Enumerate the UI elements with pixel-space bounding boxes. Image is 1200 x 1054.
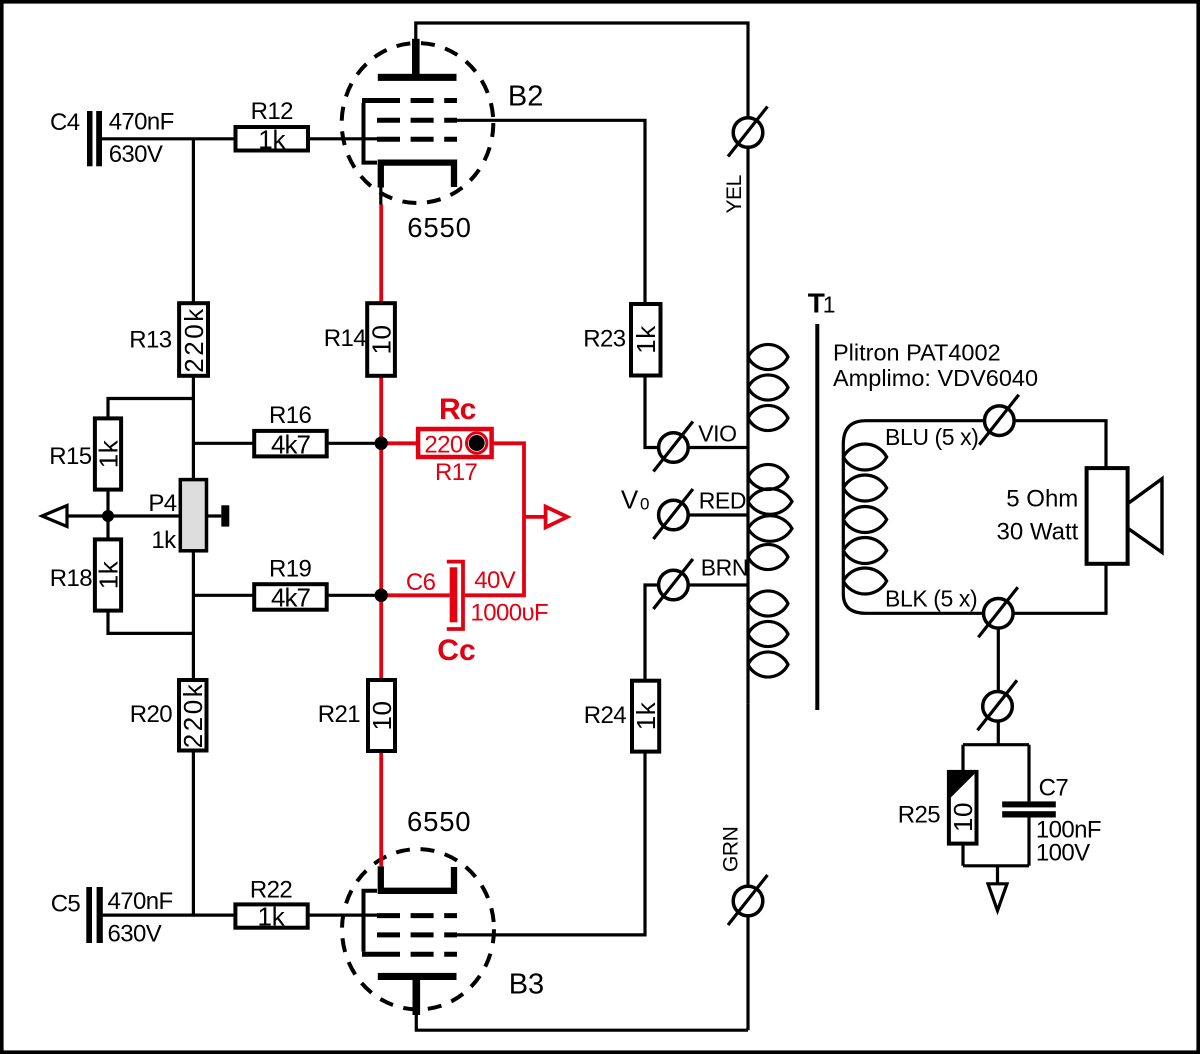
svg-text:1k: 1k [94,439,124,468]
svg-text:1k: 1k [631,701,661,730]
svg-text:220k: 220k [178,682,208,748]
svg-text:6550: 6550 [407,212,471,243]
svg-text:Amplimo: VDV6040: Amplimo: VDV6040 [833,365,1038,391]
svg-text:RED: RED [699,488,746,514]
svg-text:10: 10 [948,802,978,832]
svg-text:470nF: 470nF [109,109,174,136]
svg-text:6550: 6550 [407,806,471,837]
svg-text:40V: 40V [474,567,515,594]
svg-text:100V: 100V [1036,840,1090,867]
svg-text:220: 220 [424,432,462,459]
svg-text:R15: R15 [49,443,91,470]
svg-text:R25: R25 [898,802,940,829]
svg-text:1: 1 [823,291,836,317]
svg-text:Rc: Rc [439,393,476,426]
svg-text:4k7: 4k7 [271,429,310,459]
svg-text:R18: R18 [50,565,92,592]
svg-text:R19: R19 [269,556,311,583]
svg-text:470nF: 470nF [108,888,173,915]
svg-text:1k: 1k [257,902,285,932]
svg-text:5 Ohm: 5 Ohm [1006,486,1078,513]
svg-text:R22: R22 [250,877,292,904]
svg-text:R13: R13 [129,327,171,354]
svg-text:R24: R24 [584,702,626,729]
svg-text:C6: C6 [406,569,436,596]
svg-text:R17: R17 [435,459,477,486]
svg-text:1k: 1k [258,125,286,155]
svg-text:1k: 1k [94,560,124,589]
svg-text:P4: P4 [148,490,176,517]
svg-text:BLK (5 x): BLK (5 x) [885,586,977,612]
svg-text:R21: R21 [318,701,360,728]
svg-text:10: 10 [367,701,397,731]
svg-text:1k: 1k [151,527,177,554]
svg-text:4k7: 4k7 [271,583,310,613]
svg-text:630V: 630V [109,141,163,168]
svg-text:R23: R23 [583,326,625,353]
svg-text:VIO: VIO [698,420,736,446]
svg-text:220k: 220k [179,306,209,372]
svg-text:GRN: GRN [720,827,743,872]
svg-text:R16: R16 [269,402,311,429]
svg-text:10: 10 [367,325,397,355]
svg-text:YEL: YEL [723,175,746,214]
svg-text:B2: B2 [508,81,543,113]
svg-text:R12: R12 [251,98,293,125]
svg-text:C5: C5 [51,891,81,918]
svg-text:0: 0 [640,495,649,514]
svg-text:Plitron PAT4002: Plitron PAT4002 [833,339,1001,365]
svg-text:BLU (5 x): BLU (5 x) [885,424,979,450]
svg-text:1k: 1k [631,325,661,354]
svg-text:C7: C7 [1039,775,1069,802]
svg-text:BRN: BRN [701,554,748,580]
svg-text:C4: C4 [50,109,80,136]
svg-text:630V: 630V [108,921,162,948]
svg-text:Cc: Cc [437,634,475,667]
svg-text:R20: R20 [130,701,172,728]
svg-text:30 Watt: 30 Watt [996,519,1078,546]
svg-text:V: V [621,485,639,515]
svg-text:1000υF: 1000υF [471,599,549,626]
svg-text:B3: B3 [509,969,544,1001]
svg-text:R14: R14 [324,325,366,352]
